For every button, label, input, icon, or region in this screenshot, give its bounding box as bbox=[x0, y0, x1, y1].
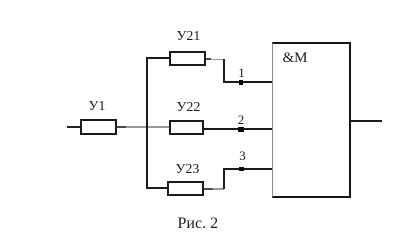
block У23 bbox=[167, 181, 204, 196]
wire У21 output dark stub bbox=[206, 58, 211, 60]
wire У23 output gray bbox=[213, 188, 225, 189]
node junction 2 bbox=[238, 127, 243, 132]
block У21 bbox=[169, 51, 206, 67]
wire У1 output dark stub bbox=[117, 126, 127, 128]
label У23 bbox=[176, 162, 200, 178]
wire vertical drop to input 1 bbox=[223, 59, 225, 83]
block У22 bbox=[169, 120, 204, 135]
caption Рис. 2 bbox=[178, 215, 219, 233]
label pin 2 bbox=[238, 112, 245, 128]
label У21 bbox=[177, 29, 201, 45]
wire input 2 horizontal bbox=[204, 128, 273, 130]
node junction 1 bbox=[239, 80, 244, 85]
wire output bbox=[351, 120, 382, 122]
wire vertical rise to input 3 bbox=[223, 168, 225, 190]
node junction 3 bbox=[239, 167, 244, 172]
label У1 bbox=[89, 99, 106, 115]
wire trunk У1 to У22 (gray) bbox=[126, 126, 169, 127]
wire input 3 horizontal bbox=[223, 168, 273, 170]
wire У23 output dark stub bbox=[204, 188, 213, 190]
wire branch to У21 bbox=[146, 57, 169, 59]
wire input 1 horizontal bbox=[223, 81, 273, 83]
wire input stub left of У1 bbox=[67, 126, 80, 128]
wire bus vertical bbox=[146, 57, 148, 189]
label pin 3 bbox=[239, 148, 246, 164]
label pin 1 bbox=[238, 65, 245, 81]
wire У21 output gray bbox=[211, 59, 225, 60]
block У1 bbox=[80, 119, 117, 135]
label У22 bbox=[177, 100, 201, 116]
label &M bbox=[283, 50, 308, 67]
block &M bbox=[272, 42, 352, 198]
wire branch to У23 bbox=[146, 187, 168, 189]
